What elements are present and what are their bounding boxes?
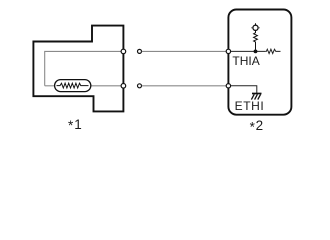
component *1 outline (sensor body) [33, 26, 123, 112]
wire internal loop top [45, 51, 122, 85]
harness wire bottom (to ETHI) [142, 85, 226, 87]
harness wire top (to THIA) [142, 50, 226, 52]
svg-text:ETHI: ETHI [235, 99, 265, 113]
connector pin bottom (open circle) [138, 84, 142, 88]
wire internal thermistor right [91, 85, 121, 87]
thermistor body (capsule) [55, 80, 91, 92]
internal resistor R1 vertical (pull-up) [254, 30, 258, 49]
chassis ground symbol [251, 94, 261, 100]
terminal ETHI on box edge [226, 84, 230, 88]
internal resistor R2 horizontal [265, 49, 280, 53]
terminal pin 1 on component edge [121, 49, 126, 54]
internal wire ETHI to ground [231, 86, 257, 93]
svg-text:*2: *2 [250, 118, 264, 134]
power source symbol (circle with ticks) [251, 23, 260, 30]
svg-text:THIA: THIA [232, 54, 259, 68]
terminal pin 2 on component edge [121, 84, 126, 89]
internal wire THIA to junction [231, 50, 266, 52]
junction node dot [254, 50, 258, 54]
resistor element zigzag inside capsule [57, 83, 89, 88]
connector pin top (open circle) [138, 49, 142, 53]
svg-text:*1: *1 [68, 117, 83, 133]
ECU box *2 outline [228, 10, 291, 115]
wire internal to thermistor left [45, 85, 55, 87]
terminal THIA on box edge [226, 49, 230, 53]
